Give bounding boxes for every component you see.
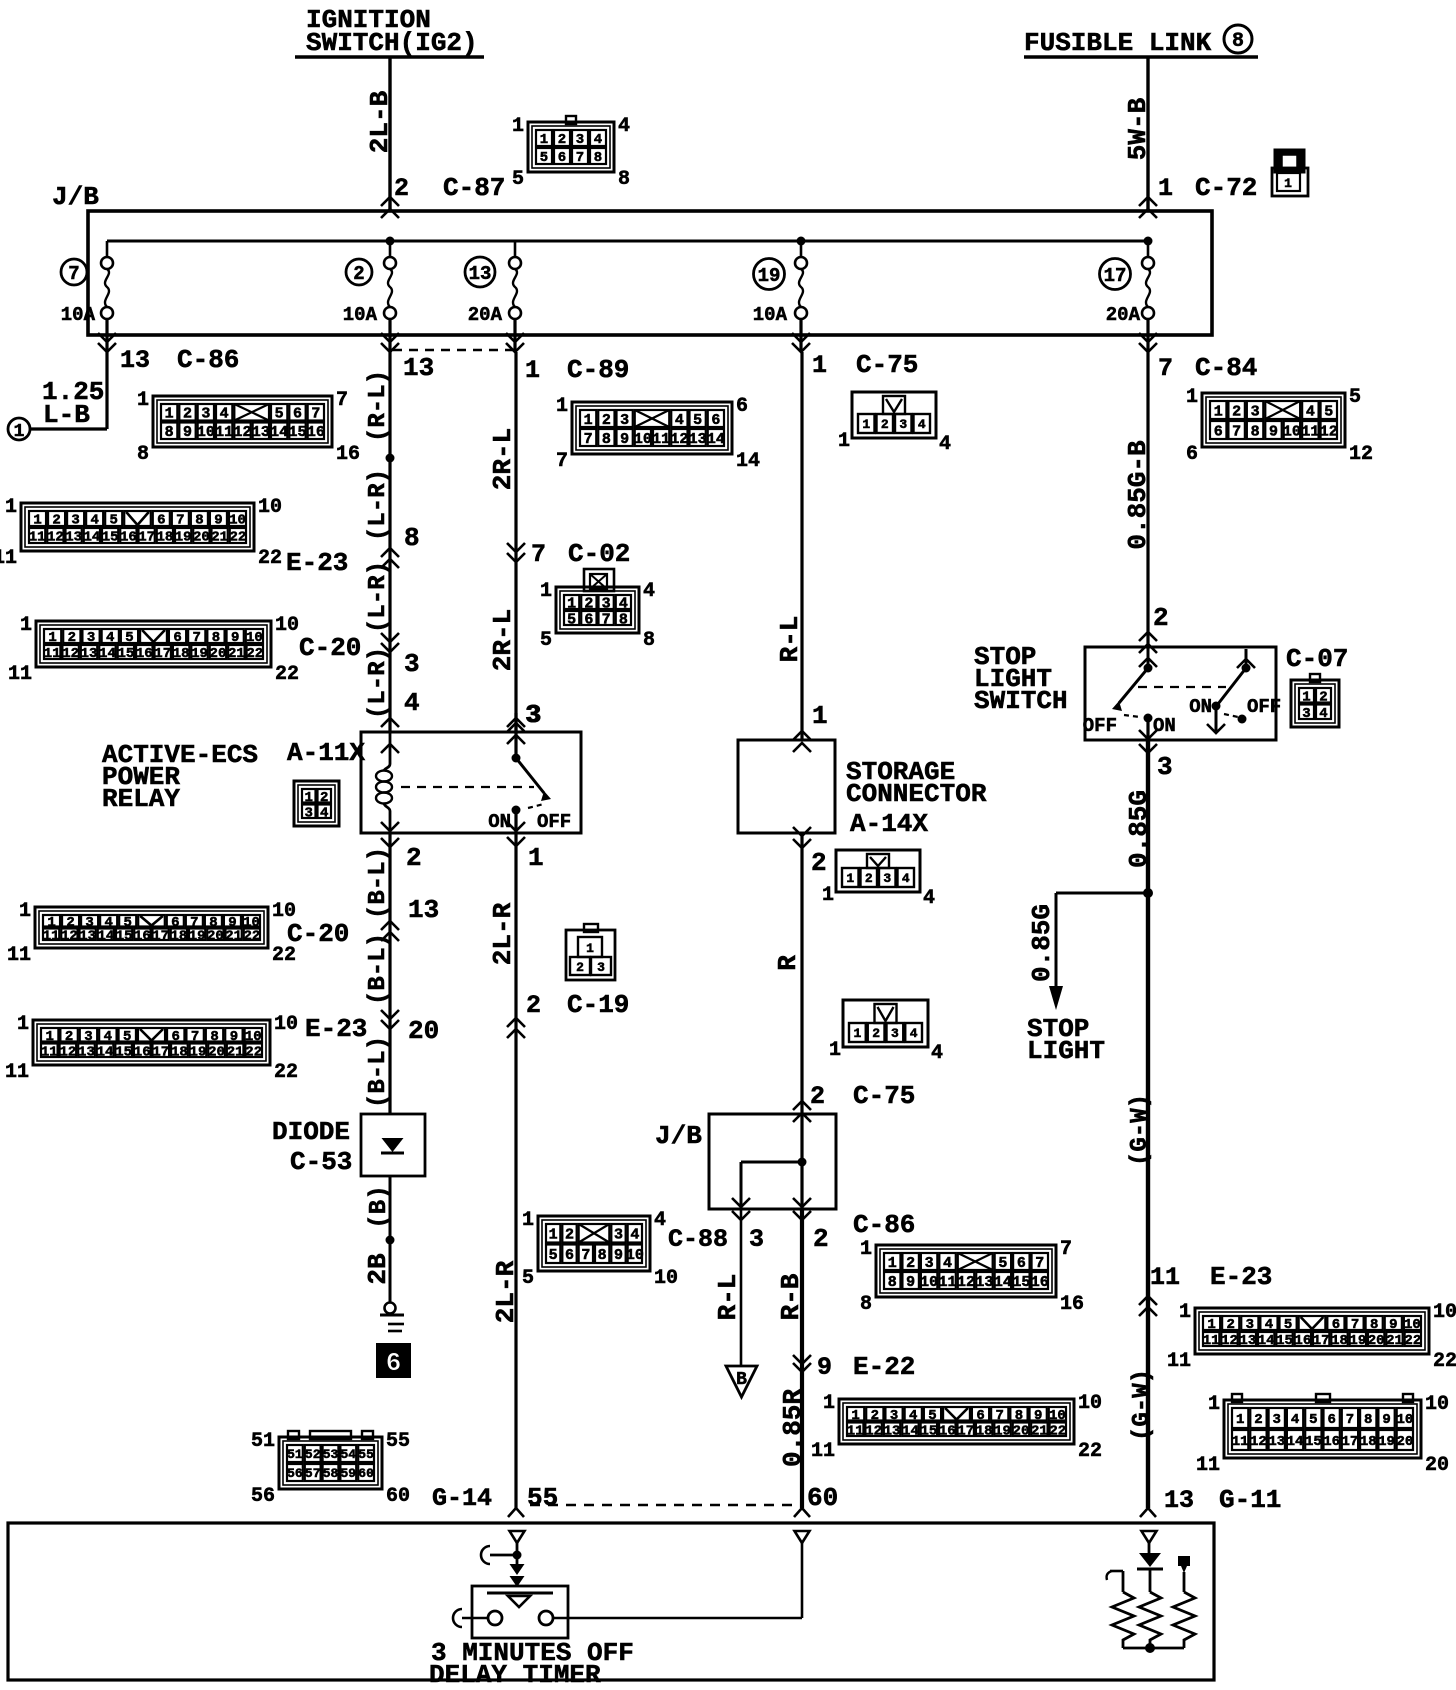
svg-text:2: 2	[320, 790, 328, 806]
svg-text:7: 7	[193, 630, 201, 646]
svg-text:3: 3	[602, 595, 611, 612]
svg-text:5: 5	[540, 629, 552, 652]
svg-text:20: 20	[1368, 1333, 1385, 1349]
svg-text:12: 12	[670, 431, 688, 448]
svg-text:21: 21	[1386, 1333, 1403, 1349]
svg-text:8: 8	[212, 630, 220, 646]
svg-text:C-89: C-89	[567, 355, 629, 385]
svg-text:10: 10	[1283, 423, 1301, 440]
svg-text:1: 1	[888, 1255, 897, 1272]
connector C-20 second	[35, 907, 268, 948]
wire R-L to B	[740, 1209, 743, 1366]
svg-text:1: 1	[5, 496, 17, 519]
svg-text:3: 3	[201, 406, 210, 423]
svg-text:9: 9	[1034, 1408, 1042, 1424]
wire R-B	[800, 1209, 804, 1508]
svg-text:10: 10	[1049, 1408, 1066, 1424]
svg-text:2: 2	[1153, 603, 1169, 633]
svg-text:11: 11	[939, 1274, 957, 1291]
internal wire from 55	[516, 1543, 519, 1565]
svg-text:10: 10	[258, 496, 282, 519]
svg-text:5: 5	[125, 630, 133, 646]
svg-text:7: 7	[1346, 1412, 1354, 1428]
svg-text:2: 2	[1226, 1317, 1234, 1333]
svg-text:13: 13	[78, 1044, 95, 1060]
svg-text:4: 4	[939, 433, 951, 456]
svg-text:8: 8	[137, 443, 149, 466]
svg-text:14: 14	[83, 530, 100, 546]
svg-text:2: 2	[811, 848, 827, 878]
svg-text:C-88: C-88	[668, 1225, 728, 1254]
terminal fork 13	[1147, 1495, 1150, 1508]
ground reference 6 black box	[377, 1344, 410, 1377]
wire 2R-L column B	[514, 352, 517, 732]
svg-text:7: 7	[191, 1029, 199, 1045]
storage connector box	[738, 740, 835, 833]
fuse 7 10A	[106, 241, 109, 257]
wire fuse output at x=390	[388, 319, 391, 352]
svg-text:7: 7	[1232, 423, 1241, 440]
svg-text:11: 11	[1196, 1454, 1220, 1477]
svg-text:17: 17	[1104, 265, 1127, 287]
svg-text:2R-L: 2R-L	[488, 428, 518, 490]
svg-text:10: 10	[246, 630, 263, 646]
LED diode symbol	[1148, 1543, 1151, 1554]
internal branch with hook	[490, 1554, 517, 1557]
svg-text:8: 8	[618, 168, 630, 191]
svg-text:1: 1	[846, 871, 854, 886]
svg-text:11: 11	[1232, 1434, 1249, 1450]
svg-text:18: 18	[173, 646, 190, 662]
svg-text:19: 19	[758, 265, 781, 287]
junction node stop light branch	[1143, 888, 1153, 898]
svg-text:11: 11	[811, 1440, 835, 1463]
wire fuse output at x=801	[799, 319, 802, 352]
svg-text:16: 16	[136, 646, 153, 662]
svg-text:C-75: C-75	[853, 1081, 915, 1111]
svg-text:2: 2	[602, 412, 611, 429]
svg-text:1: 1	[540, 132, 548, 148]
svg-text:C-87: C-87	[443, 173, 505, 203]
svg-text:4: 4	[1319, 706, 1327, 722]
svg-text:1: 1	[20, 614, 32, 637]
svg-text:OFF: OFF	[537, 811, 571, 833]
svg-text:8: 8	[598, 1247, 607, 1264]
delay timer switch box	[472, 1586, 568, 1638]
svg-text:7: 7	[311, 406, 320, 423]
svg-text:4: 4	[618, 115, 630, 138]
svg-text:5: 5	[1349, 386, 1361, 409]
svg-text:9: 9	[906, 1274, 915, 1291]
svg-text:8: 8	[404, 523, 420, 553]
svg-text:2: 2	[810, 1082, 825, 1111]
svg-text:13: 13	[975, 1274, 993, 1291]
svg-text:12: 12	[47, 530, 64, 546]
svg-text:4: 4	[1306, 403, 1315, 420]
svg-text:17: 17	[154, 646, 171, 662]
svg-text:21: 21	[1031, 1423, 1048, 1439]
svg-text:10: 10	[275, 614, 299, 637]
svg-text:A-11X: A-11X	[287, 738, 365, 768]
svg-text:55: 55	[358, 1447, 374, 1462]
svg-text:2: 2	[872, 1026, 880, 1041]
svg-text:14: 14	[736, 450, 760, 473]
svg-text:9: 9	[231, 630, 239, 646]
svg-text:3: 3	[883, 871, 891, 886]
svg-text:55: 55	[386, 1430, 410, 1453]
svg-text:13: 13	[403, 353, 434, 383]
svg-text:21: 21	[211, 530, 228, 546]
connector A-11X	[294, 781, 339, 826]
svg-text:16: 16	[1060, 1293, 1084, 1316]
svg-text:8: 8	[860, 1293, 872, 1316]
svg-text:2: 2	[1319, 689, 1327, 705]
svg-text:1: 1	[165, 406, 174, 423]
svg-text:ON: ON	[1189, 696, 1212, 718]
svg-text:8: 8	[602, 431, 611, 448]
svg-text:3: 3	[614, 1227, 623, 1244]
svg-text:13: 13	[65, 530, 82, 546]
svg-text:10: 10	[1425, 1393, 1449, 1416]
svg-text:4: 4	[1265, 1317, 1273, 1333]
svg-text:1: 1	[45, 1029, 53, 1045]
terminal fork 55	[515, 1495, 518, 1508]
svg-text:1: 1	[862, 417, 870, 432]
svg-text:5: 5	[693, 412, 702, 429]
svg-text:20A: 20A	[1106, 304, 1141, 326]
svg-text:8: 8	[643, 629, 655, 652]
stop light switch left throw	[1147, 647, 1150, 668]
svg-text:11: 11	[5, 1061, 29, 1084]
svg-text:(L-R): (L-R)	[365, 469, 392, 541]
svg-text:6: 6	[584, 611, 593, 628]
svg-text:1: 1	[1207, 1317, 1215, 1333]
svg-text:11: 11	[847, 1423, 864, 1439]
svg-text:6: 6	[173, 630, 181, 646]
junction node on bus at ignition feed	[386, 237, 395, 246]
svg-text:E-23: E-23	[286, 548, 348, 578]
svg-text:1: 1	[33, 513, 41, 529]
svg-text:4: 4	[923, 887, 935, 910]
lamp network common node	[1123, 1647, 1184, 1650]
svg-text:19: 19	[1349, 1333, 1366, 1349]
input triangle 13 G-11	[1142, 1531, 1157, 1543]
svg-text:9: 9	[620, 431, 629, 448]
svg-text:3: 3	[925, 1255, 934, 1272]
svg-text:5: 5	[1284, 1317, 1292, 1333]
svg-text:4: 4	[404, 688, 420, 718]
svg-text:C-20: C-20	[287, 919, 349, 949]
svg-text:E-22: E-22	[853, 1352, 915, 1382]
svg-text:3: 3	[891, 1026, 899, 1041]
svg-text:1: 1	[1236, 1412, 1244, 1428]
svg-text:9: 9	[214, 513, 222, 529]
svg-text:19: 19	[190, 1044, 207, 1060]
svg-text:12: 12	[1349, 443, 1373, 466]
svg-text:18: 18	[170, 928, 187, 944]
svg-text:1: 1	[586, 941, 594, 956]
svg-text:11: 11	[7, 944, 31, 967]
svg-text:3: 3	[404, 649, 420, 679]
svg-text:17: 17	[1313, 1333, 1330, 1349]
svg-text:1: 1	[860, 1238, 872, 1261]
svg-text:13: 13	[79, 928, 96, 944]
connector C-84	[1202, 393, 1345, 447]
junction node column A	[386, 454, 395, 463]
svg-text:3: 3	[749, 1225, 764, 1254]
svg-text:51: 51	[251, 1430, 275, 1453]
svg-text:4: 4	[931, 1042, 943, 1065]
svg-text:19: 19	[189, 928, 206, 944]
svg-text:R-L: R-L	[775, 616, 805, 663]
svg-text:3: 3	[1251, 403, 1260, 420]
svg-text:ON: ON	[488, 811, 511, 833]
svg-text:8: 8	[195, 513, 203, 529]
svg-text:14: 14	[1258, 1333, 1275, 1349]
svg-text:3: 3	[1302, 706, 1310, 722]
svg-text:6: 6	[1017, 1255, 1026, 1272]
svg-text:(R-L): (R-L)	[365, 370, 392, 442]
svg-text:11: 11	[1301, 423, 1319, 440]
svg-text:C-20: C-20	[299, 633, 361, 663]
svg-text:1: 1	[137, 389, 149, 412]
timer switch right lead	[553, 1617, 802, 1620]
svg-text:5: 5	[928, 1408, 936, 1424]
svg-text:8: 8	[888, 1274, 897, 1291]
svg-text:2: 2	[881, 417, 889, 432]
junction block J/B small box	[709, 1114, 836, 1209]
svg-text:6: 6	[711, 412, 720, 429]
svg-text:E-23: E-23	[305, 1014, 367, 1044]
junction node on bus at fusible link feed	[1144, 237, 1153, 246]
resistor right	[1112, 1592, 1134, 1648]
svg-text:6: 6	[565, 1247, 574, 1264]
svg-text:19: 19	[175, 530, 192, 546]
svg-text:2: 2	[65, 1029, 73, 1045]
svg-text:16: 16	[1294, 1333, 1311, 1349]
fuse 2 10A	[389, 241, 392, 257]
svg-text:16: 16	[134, 928, 151, 944]
svg-text:7: 7	[581, 1247, 590, 1264]
svg-text:22: 22	[246, 646, 263, 662]
dashed link line	[393, 349, 516, 351]
svg-text:1: 1	[48, 630, 56, 646]
svg-text:9: 9	[183, 424, 192, 441]
svg-text:13: 13	[252, 424, 270, 441]
svg-text:7: 7	[602, 611, 611, 628]
svg-text:5: 5	[567, 611, 576, 628]
svg-text:16: 16	[1323, 1434, 1340, 1450]
svg-text:2: 2	[576, 960, 584, 975]
svg-text:C-84: C-84	[1195, 353, 1257, 383]
svg-text:59: 59	[340, 1466, 356, 1481]
svg-text:R-L: R-L	[713, 1274, 743, 1321]
svg-text:11: 11	[1203, 1333, 1220, 1349]
svg-text:10: 10	[197, 424, 215, 441]
svg-text:C-86: C-86	[853, 1210, 915, 1240]
stop light switch right throw	[1245, 649, 1248, 668]
svg-text:2: 2	[526, 991, 541, 1020]
svg-text:R: R	[773, 955, 803, 971]
svg-text:1: 1	[1214, 403, 1223, 420]
svg-text:16: 16	[120, 530, 137, 546]
svg-text:5: 5	[998, 1255, 1007, 1272]
timer switch left lead with hook	[462, 1617, 488, 1620]
svg-text:9: 9	[817, 1353, 832, 1382]
svg-text:15: 15	[920, 1423, 937, 1439]
svg-text:1: 1	[17, 1013, 29, 1036]
svg-text:14: 14	[97, 1044, 114, 1060]
svg-text:22: 22	[243, 928, 260, 944]
wire R-L column C	[800, 352, 803, 740]
svg-text:10A: 10A	[61, 304, 96, 326]
svg-text:22: 22	[1049, 1423, 1066, 1439]
svg-text:12: 12	[61, 928, 78, 944]
svg-text:6: 6	[558, 150, 566, 166]
svg-text:C-75: C-75	[856, 350, 918, 380]
input triangle 60	[795, 1531, 810, 1543]
svg-text:7: 7	[584, 431, 593, 448]
relay coil	[381, 744, 399, 753]
svg-text:15: 15	[116, 928, 133, 944]
svg-text:3: 3	[899, 417, 907, 432]
svg-text:60: 60	[386, 1485, 410, 1508]
svg-text:C-72: C-72	[1195, 173, 1257, 203]
svg-text:(G-W): (G-W)	[1127, 1094, 1154, 1166]
svg-text:1: 1	[528, 843, 544, 873]
svg-text:1: 1	[829, 1039, 841, 1062]
wire 0.85G-B column D	[1146, 352, 1149, 647]
svg-text:14: 14	[97, 928, 114, 944]
svg-text:13: 13	[408, 895, 439, 925]
svg-text:2: 2	[906, 1255, 915, 1272]
svg-text:(G-W): (G-W)	[1129, 1369, 1156, 1441]
connector A-14X	[836, 850, 920, 892]
svg-text:53: 53	[323, 1447, 339, 1462]
svg-text:1: 1	[549, 1227, 558, 1244]
wire fuse output at x=1148	[1146, 319, 1149, 352]
relay switch	[514, 713, 517, 758]
svg-text:(B-L): (B-L)	[365, 1036, 392, 1108]
svg-text:51: 51	[287, 1447, 303, 1462]
svg-text:0.85G-B: 0.85G-B	[1123, 440, 1153, 550]
svg-text:21: 21	[227, 1044, 244, 1060]
connector E-23	[21, 503, 254, 551]
svg-text:8: 8	[1232, 30, 1244, 53]
svg-text:2: 2	[565, 1227, 574, 1244]
svg-text:4: 4	[320, 805, 328, 821]
connector C-88	[538, 1216, 650, 1271]
connector G-14	[279, 1437, 382, 1489]
svg-text:15: 15	[1305, 1434, 1322, 1450]
svg-text:5: 5	[512, 168, 524, 191]
svg-text:11: 11	[29, 530, 46, 546]
svg-text:12: 12	[233, 424, 251, 441]
connector E-23 second	[33, 1020, 270, 1065]
svg-text:5: 5	[549, 1247, 558, 1264]
svg-text:C-02: C-02	[568, 539, 630, 569]
svg-text:OFF: OFF	[1083, 715, 1117, 737]
wire branch inside J/B	[800, 1114, 803, 1209]
svg-text:7: 7	[1351, 1317, 1359, 1333]
svg-text:2: 2	[406, 843, 422, 873]
svg-text:10: 10	[634, 431, 652, 448]
svg-text:20A: 20A	[468, 304, 503, 326]
svg-text:11: 11	[1167, 1350, 1191, 1373]
svg-text:20: 20	[207, 928, 224, 944]
svg-text:10: 10	[229, 513, 246, 529]
svg-text:22: 22	[245, 1044, 262, 1060]
svg-text:1: 1	[823, 1392, 835, 1415]
svg-text:12: 12	[1221, 1333, 1238, 1349]
wire (B-L) below relay	[388, 833, 391, 1114]
svg-text:6: 6	[293, 406, 302, 423]
connector C-89	[572, 402, 732, 454]
svg-text:1: 1	[812, 351, 827, 380]
svg-text:7: 7	[1035, 1255, 1044, 1272]
svg-text:1: 1	[1208, 1393, 1220, 1416]
svg-text:13: 13	[1164, 1486, 1194, 1515]
svg-text:4: 4	[1291, 1412, 1299, 1428]
svg-text:CONNECTOR: CONNECTOR	[846, 779, 987, 809]
connector C-19	[566, 924, 615, 980]
connector C-86	[153, 396, 332, 447]
svg-text:6: 6	[976, 1408, 984, 1424]
svg-text:20: 20	[193, 530, 210, 546]
svg-text:13: 13	[689, 431, 707, 448]
svg-text:OFF: OFF	[1247, 696, 1281, 718]
connector C-87	[528, 122, 614, 172]
terminal fork 60	[801, 1495, 804, 1508]
svg-text:R-B: R-B	[776, 1273, 806, 1320]
svg-text:1: 1	[567, 595, 576, 612]
svg-text:13: 13	[1268, 1434, 1285, 1450]
svg-text:4: 4	[643, 580, 655, 603]
svg-text:7: 7	[576, 150, 584, 166]
svg-text:12: 12	[1320, 423, 1338, 440]
svg-text:2: 2	[865, 871, 873, 886]
svg-text:19: 19	[191, 646, 208, 662]
svg-text:56: 56	[251, 1485, 275, 1508]
svg-text:E-23: E-23	[1210, 1262, 1272, 1292]
svg-text:8: 8	[165, 424, 174, 441]
double arrow to timer switch	[510, 1564, 525, 1575]
svg-text:55: 55	[527, 1483, 558, 1513]
fuse 19 10A	[800, 241, 803, 257]
svg-text:52: 52	[305, 1447, 321, 1462]
svg-text:1: 1	[14, 422, 25, 442]
svg-text:1: 1	[851, 1408, 859, 1424]
svg-text:11: 11	[43, 928, 60, 944]
svg-text:22: 22	[275, 663, 299, 686]
svg-text:(L-R): (L-R)	[365, 561, 392, 633]
stop light switch dashed link	[1138, 686, 1226, 688]
svg-text:5: 5	[123, 1029, 131, 1045]
svg-text:5: 5	[1309, 1412, 1317, 1428]
svg-text:17: 17	[138, 530, 155, 546]
svg-text:0.85G: 0.85G	[1027, 904, 1057, 982]
svg-text:7: 7	[68, 263, 79, 285]
svg-text:2: 2	[871, 1408, 879, 1424]
svg-text:3: 3	[620, 412, 629, 429]
svg-text:14: 14	[99, 646, 116, 662]
svg-text:1: 1	[584, 412, 593, 429]
wire fuse output at x=515	[513, 319, 516, 352]
svg-text:3: 3	[71, 513, 79, 529]
wire R below storage connector	[800, 833, 803, 1114]
svg-text:C-19: C-19	[567, 990, 629, 1020]
svg-text:8: 8	[619, 611, 628, 628]
